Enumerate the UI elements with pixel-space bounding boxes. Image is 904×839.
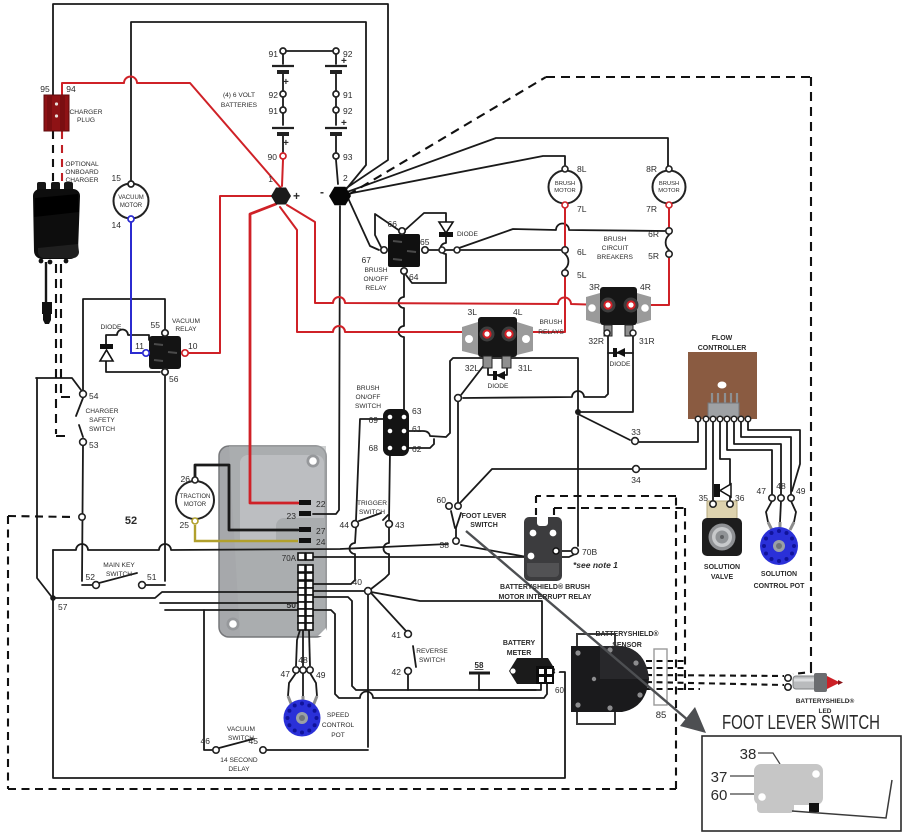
svg-text:50: 50 — [287, 600, 297, 610]
svg-text:VACUUM: VACUUM — [172, 318, 200, 325]
wire node 40 to reverse 41 — [371, 593, 406, 631]
dashed onboard charger drop right — [61, 264, 74, 397]
speed control pot — [284, 700, 321, 737]
svg-text:85: 85 — [656, 710, 667, 721]
wire yellow traction motor 25 to pin 24 — [195, 525, 298, 541]
svg-text:+: + — [283, 138, 289, 149]
diode D1 vacuum relay — [100, 344, 113, 361]
wire flow pin to pot 48 — [734, 421, 781, 494]
wire flow pin to solution valve 36 — [720, 421, 730, 500]
optional onboard charger — [33, 182, 80, 324]
svg-text:31L: 31L — [518, 363, 532, 373]
svg-text:70A: 70A — [282, 554, 297, 563]
svg-text:67: 67 — [362, 255, 372, 265]
svg-text:SWITCH: SWITCH — [355, 403, 381, 410]
svg-text:15: 15 — [112, 173, 122, 183]
dashed inner second top edge — [554, 507, 685, 509]
brush relay 3L/4L — [462, 317, 533, 368]
svg-text:33: 33 — [631, 427, 641, 437]
dashed right edge down to LED — [810, 77, 812, 666]
dashed elbow to LED — [793, 666, 811, 674]
brush motor 8L — [549, 166, 582, 208]
svg-text:BRUSH: BRUSH — [539, 319, 562, 326]
wire node 40 left into grid — [313, 590, 364, 592]
wire red node 1 to 3L rail — [280, 207, 482, 332]
controller pin 24 — [299, 538, 311, 543]
svg-text:60: 60 — [711, 787, 728, 804]
wire node 2 negative bus down to controller pin 23 — [313, 206, 340, 514]
svg-text:MOTOR: MOTOR — [120, 203, 143, 209]
controller pin grid 50 — [298, 581, 313, 630]
svg-text:92: 92 — [343, 106, 353, 116]
wire trigger switch blade — [359, 513, 388, 521]
svg-text:MOTOR: MOTOR — [554, 188, 575, 194]
svg-text:47: 47 — [757, 486, 767, 496]
wire breaker arc 6R-5R — [666, 235, 669, 250]
svg-text:BATTERYSHIELD®: BATTERYSHIELD® — [796, 697, 855, 705]
svg-text:VALVE: VALVE — [711, 574, 734, 581]
svg-text:FOOT LEVER: FOOT LEVER — [462, 513, 507, 520]
dashed sensor to LED row 3 — [646, 675, 784, 676]
svg-text:8L: 8L — [577, 164, 587, 174]
svg-text:ON/OFF: ON/OFF — [364, 276, 389, 283]
wire node 40 to battery meter box — [371, 592, 542, 666]
svg-text:47: 47 — [281, 669, 291, 679]
wire 66 to diode to 64 loop — [404, 213, 446, 283]
node 40 — [365, 588, 372, 595]
svg-text:RELAYS: RELAYS — [538, 329, 564, 336]
wire 65 node to breaker 6R — [459, 224, 665, 248]
wire red battery 90 to node 1 — [62, 77, 669, 504]
svg-text:-: - — [320, 185, 324, 199]
svg-text:METER: METER — [507, 650, 532, 657]
svg-text:56: 56 — [169, 374, 179, 384]
node under 3L — [455, 395, 462, 402]
wire battery 93 to node 2 — [336, 160, 338, 184]
wire charger safety switch blade — [76, 398, 83, 437]
svg-text:SWITCH: SWITCH — [470, 522, 498, 529]
svg-text:4L: 4L — [513, 307, 523, 317]
vacuum motor — [114, 181, 149, 222]
svg-text:MAIN KEY: MAIN KEY — [103, 562, 135, 569]
svg-text:+: + — [341, 56, 347, 67]
svg-text:36: 36 — [735, 493, 745, 503]
plus minus marks — [293, 185, 324, 203]
node 47 48 49 circles — [293, 667, 313, 673]
wire vacuum motor 15 to node 2 top run — [131, 22, 366, 193]
svg-text:49: 49 — [316, 670, 326, 680]
svg-text:26: 26 — [181, 474, 191, 484]
svg-text:MOTOR: MOTOR — [658, 188, 679, 194]
svg-text:CONTROL: CONTROL — [322, 722, 355, 729]
svg-text:BATTERYSHIELD®: BATTERYSHIELD® — [595, 630, 659, 638]
reverse switch terminals 41 42 — [405, 631, 412, 638]
svg-text:91: 91 — [269, 106, 279, 116]
svg-text:VACUUM: VACUUM — [118, 195, 144, 201]
wire red 7L to 6L — [564, 209, 566, 246]
svg-text:BRUSH: BRUSH — [555, 181, 575, 187]
svg-text:SWITCH: SWITCH — [419, 657, 445, 664]
wire grid row to 352 drop to meter — [313, 597, 541, 690]
wire vacuum relay diode top link — [106, 330, 149, 345]
wire flow pin to pot 49 — [741, 421, 791, 494]
brush relay 3R/4R — [586, 287, 651, 336]
svg-text:+: + — [293, 189, 300, 203]
svg-text:25: 25 — [180, 520, 190, 530]
junction 57 dot — [50, 595, 56, 601]
svg-text:6R: 6R — [648, 229, 659, 239]
wire red node 1 to vacuum relay 10 — [189, 196, 272, 353]
solution pot lead wires — [766, 501, 796, 522]
svg-text:51: 51 — [147, 572, 157, 582]
svg-text:66: 66 — [388, 219, 398, 229]
wire reverse switch blade — [413, 646, 416, 667]
svg-text:3L: 3L — [468, 307, 478, 317]
wire main key switch blade — [99, 573, 137, 583]
wire junction dot down to 70B — [577, 416, 579, 546]
dashed top right run — [546, 76, 811, 78]
controller module body — [219, 446, 326, 637]
svg-text:48: 48 — [298, 655, 308, 665]
svg-text:CONTROLLER: CONTROLLER — [698, 345, 747, 352]
svg-text:BRUSH: BRUSH — [356, 385, 379, 392]
dashed node 2 diagonal to top right — [348, 77, 546, 195]
component caption texts — [65, 92, 679, 773]
controller pin 70A pair — [298, 553, 313, 560]
svg-text:58: 58 — [475, 661, 484, 670]
svg-text:BATTERIES: BATTERIES — [221, 102, 258, 109]
wire vacuum relay diode bottom to 56 — [106, 361, 160, 372]
wire vacuum switch blade — [219, 739, 253, 748]
svg-text:SOLUTION: SOLUTION — [761, 571, 797, 578]
wire 56 down through bus to main key 51 — [146, 376, 165, 585]
junction dot 578 — [575, 409, 581, 415]
trigger switch terminals — [352, 521, 359, 528]
svg-text:10: 10 — [188, 341, 198, 351]
wire main bus 550 with hops to foot lever 38 — [53, 544, 448, 550]
svg-text:DIODE: DIODE — [610, 361, 631, 368]
wire node 2 to relay 67 — [348, 198, 379, 250]
svg-text:68: 68 — [369, 443, 379, 453]
svg-text:PLUG: PLUG — [77, 117, 95, 124]
svg-text:SOLUTION: SOLUTION — [704, 564, 740, 571]
dashed inner second right edge — [684, 508, 686, 690]
wire 32R down and left to node under 3L — [463, 336, 608, 398]
wire brush switch 68 to trigger 43 — [389, 451, 390, 520]
svg-text:FOOT LEVER SWITCH: FOOT LEVER SWITCH — [722, 712, 880, 734]
wire flow pin to solution valve 35 — [712, 421, 714, 500]
wire grid left entries — [53, 592, 313, 610]
svg-text:1: 1 — [268, 174, 273, 184]
wire blue vacuum motor 14 to relay 11 — [131, 222, 142, 353]
wire flow pin to pot 47 — [727, 421, 772, 494]
svg-text:TRACTION: TRACTION — [180, 494, 211, 500]
node 34 — [633, 466, 640, 473]
batteryshield relay — [524, 517, 562, 581]
dashed outer box left edge — [7, 516, 9, 789]
charger safety terminals 54 53 — [80, 391, 87, 398]
svg-text:95: 95 — [40, 84, 50, 94]
svg-text:ONBOARD: ONBOARD — [65, 169, 99, 176]
svg-text:38: 38 — [740, 746, 757, 763]
svg-text:MOTOR INTERRUPT RELAY: MOTOR INTERRUPT RELAY — [499, 594, 592, 601]
wire 8R top feed — [667, 165, 669, 169]
wire junction 578 dot to node 33 — [578, 414, 630, 440]
controller pin block upper — [298, 565, 313, 580]
wire red charger plug 94 run to node 1 — [62, 77, 281, 189]
wires grid to pot 47 48 49 — [296, 630, 310, 666]
svg-text:92: 92 — [269, 90, 279, 100]
svg-text:70B: 70B — [582, 547, 597, 557]
wire batteryshield relay to 70B — [560, 550, 571, 552]
wire vacuum relay enclosure 54 to 55 — [83, 299, 165, 390]
wire switch pin 62 stub — [407, 439, 434, 448]
dashed onboard charger drop left — [56, 264, 68, 436]
svg-text:91: 91 — [343, 90, 353, 100]
foot lever switch inset box — [702, 736, 901, 831]
svg-text:RELAY: RELAY — [175, 326, 197, 333]
svg-text:VACUUM: VACUUM — [227, 726, 255, 733]
wire flow pin 8 step — [748, 421, 800, 491]
svg-text:8R: 8R — [646, 164, 657, 174]
charger plug — [44, 95, 69, 131]
svg-text:52: 52 — [86, 572, 96, 582]
svg-text:63: 63 — [412, 406, 422, 416]
wire red 5L to 4L — [516, 277, 565, 332]
svg-text:SAFETY: SAFETY — [89, 417, 115, 424]
svg-text:22: 22 — [316, 499, 326, 509]
dashed sensor to LED row 1 — [646, 660, 688, 662]
svg-text:DIODE: DIODE — [457, 231, 478, 238]
wire 66 to 67 link — [375, 214, 400, 247]
wire 53 down through bus to main key 52 — [82, 446, 92, 585]
wire vacuum switch 45 feed — [267, 749, 368, 751]
wire 65 node to breaker 6L — [429, 249, 561, 251]
solution valve body — [702, 501, 742, 556]
svg-text:94: 94 — [66, 84, 76, 94]
brush on/off relay 67 body — [381, 228, 460, 274]
svg-text:DIODE: DIODE — [488, 383, 509, 390]
dashed sensor row 5 — [646, 688, 700, 690]
node 1 hexagon — [271, 188, 291, 205]
svg-text:DIODE: DIODE — [101, 324, 122, 331]
diode D5 above solution valve — [714, 484, 731, 497]
dashed inner box top edge — [536, 495, 676, 497]
diode D2 at relay 67 — [439, 222, 453, 237]
wire 3L diode bracket — [488, 368, 507, 375]
svg-text:MOTOR: MOTOR — [184, 502, 207, 508]
svg-text:3R: 3R — [589, 282, 600, 292]
svg-text:57: 57 — [58, 602, 68, 612]
svg-text:64: 64 — [409, 272, 419, 282]
svg-text:REVERSE: REVERSE — [416, 648, 448, 655]
svg-text:69: 69 — [369, 415, 379, 425]
svg-text:32R: 32R — [588, 336, 604, 346]
svg-text:91: 91 — [269, 49, 279, 59]
svg-text:48: 48 — [776, 481, 786, 491]
wire left drop to junction 57 — [37, 378, 51, 596]
ground 58 symbol — [469, 672, 490, 675]
wire foot lever switch V blade — [451, 511, 461, 537]
wire 38 diagonal to batteryshield relay — [461, 545, 527, 557]
svg-text:65: 65 — [420, 237, 430, 247]
diode D4 under 3R — [613, 348, 625, 357]
battery symbols left column — [272, 66, 294, 134]
flow controller — [688, 352, 757, 422]
svg-text:44: 44 — [340, 520, 350, 530]
wire node 2 to brush motor 8R — [347, 138, 668, 192]
svg-text:23: 23 — [287, 511, 297, 521]
svg-text:37: 37 — [711, 769, 728, 786]
svg-text:5R: 5R — [648, 251, 659, 261]
battery node circles — [280, 48, 339, 159]
wire bus corner down to 57 — [52, 550, 54, 596]
svg-text:ON/OFF: ON/OFF — [356, 394, 381, 401]
svg-text:SWITCH: SWITCH — [89, 426, 115, 433]
wire red node 1 down to controller pin 22 — [250, 204, 298, 503]
wire 64 down to switch pin 63 with hops over red lines — [399, 275, 405, 410]
wire red 5R to 4R — [636, 258, 669, 305]
svg-text:+: + — [341, 118, 347, 129]
wire charger plug 95 to node 2 top run — [53, 4, 388, 191]
main key switch terminals — [93, 582, 100, 589]
wire traction motor 26 to pin 27 — [195, 465, 298, 530]
dashed outer box bottom edge — [8, 788, 676, 790]
svg-text:SENSOR: SENSOR — [612, 642, 642, 649]
vacuum switch terminals 46 45 — [213, 747, 219, 753]
controller pin 23 — [299, 511, 311, 516]
arrow to inset — [466, 531, 706, 733]
svg-text:41: 41 — [392, 630, 402, 640]
svg-text:RELAY: RELAY — [365, 285, 387, 292]
node 90 red terminal — [280, 153, 286, 159]
svg-text:BRUSH: BRUSH — [659, 181, 679, 187]
svg-text:35: 35 — [699, 493, 709, 503]
svg-text:14: 14 — [112, 220, 122, 230]
svg-text:14 SECOND: 14 SECOND — [220, 757, 258, 764]
svg-text:BREAKERS: BREAKERS — [597, 254, 634, 261]
svg-text:CIRCUIT: CIRCUIT — [602, 245, 629, 252]
svg-text:61: 61 — [412, 424, 422, 434]
node 2 hexagon — [329, 187, 351, 206]
wire grid row to 335 drop to meter lower — [313, 610, 547, 698]
solution control pot — [760, 527, 798, 565]
svg-text:27: 27 — [316, 526, 326, 536]
wire elbow to charger safety 54 — [36, 378, 81, 390]
wire 57 down to bottom bus and to battery meter out — [53, 600, 565, 778]
dashed sensor to LED row 4 — [646, 682, 784, 685]
brush motor 8R — [653, 166, 686, 208]
wire trigger 43 drop with hops to node 40 — [371, 527, 389, 589]
svg-text:CHARGER: CHARGER — [66, 177, 99, 184]
svg-text:SWITCH: SWITCH — [359, 509, 385, 516]
node 70B — [572, 548, 579, 555]
svg-text:SPEED: SPEED — [327, 712, 350, 719]
batteryshield LED body — [793, 673, 843, 692]
dashed relay stub inner — [553, 508, 555, 520]
svg-text:42: 42 — [392, 667, 402, 677]
wire trigger 44 drop with hops into grid row — [313, 527, 356, 584]
svg-text:FLOW: FLOW — [712, 335, 733, 342]
batteryshield LED terminals — [785, 675, 791, 681]
svg-text:31R: 31R — [639, 336, 655, 346]
wire node 2 to brush motor 8L — [347, 156, 565, 194]
svg-text:4R: 4R — [640, 282, 651, 292]
svg-text:60: 60 — [437, 495, 447, 505]
svg-text:2: 2 — [343, 173, 348, 183]
wire red 7R to 6R — [668, 209, 670, 227]
wire node 40 down to vacuum switch 45 line — [367, 595, 369, 747]
svg-text:32L: 32L — [465, 363, 479, 373]
svg-text:40: 40 — [353, 577, 363, 587]
wire 31R to junction dot — [581, 336, 633, 412]
diode D3 under 3L — [493, 371, 505, 380]
svg-text:7L: 7L — [577, 204, 587, 214]
inset labels — [711, 746, 757, 804]
wire breaker arc 6L-5L — [565, 254, 568, 269]
dashed relay stub left — [535, 496, 537, 520]
dashed right column — [675, 496, 677, 789]
dashed outer box top-left stub — [8, 516, 72, 517]
dashed sensor to LED row 2 — [646, 667, 688, 669]
controller pin 27 — [299, 527, 311, 532]
svg-text:DELAY: DELAY — [228, 766, 250, 773]
svg-text:SWITCH: SWITCH — [228, 735, 254, 742]
wire 58 ground to battery meter — [479, 675, 536, 690]
wire 70A to 70B — [313, 554, 575, 557]
battery meter — [509, 658, 559, 684]
controller pin 22 — [299, 500, 311, 505]
svg-text:CHARGER: CHARGER — [86, 408, 119, 415]
svg-text:CONTROL POT: CONTROL POT — [754, 583, 806, 590]
svg-text:62: 62 — [412, 444, 422, 454]
svg-text:OPTIONAL: OPTIONAL — [65, 161, 99, 168]
svg-text:46: 46 — [201, 736, 211, 746]
svg-text:SWITCH: SWITCH — [106, 571, 132, 578]
brush on/off switch body — [383, 409, 409, 456]
svg-text:24: 24 — [316, 537, 326, 547]
svg-text:5L: 5L — [577, 270, 587, 280]
wire node down to foot lever 60 — [457, 402, 459, 502]
svg-text:BATTERYSHIELD® BRUSH: BATTERYSHIELD® BRUSH — [500, 583, 590, 591]
svg-text:43: 43 — [395, 520, 405, 530]
svg-text:TRIGGER: TRIGGER — [357, 500, 387, 507]
traction motor — [176, 477, 214, 524]
svg-text:(4) 6 VOLT: (4) 6 VOLT — [223, 92, 255, 99]
solution pot terminals 47 48 49 — [769, 495, 794, 501]
svg-text:90: 90 — [268, 152, 278, 162]
svg-text:CHARGER: CHARGER — [70, 109, 103, 116]
wire 3R diode bridge — [608, 352, 633, 354]
wire brush switch 69 to trigger 44 — [356, 419, 388, 520]
wire vacuum switch 46 feed — [204, 610, 212, 750]
svg-text:53: 53 — [89, 440, 99, 450]
svg-text:34: 34 — [631, 475, 641, 485]
battery symbols right column — [325, 66, 347, 134]
svg-text:52: 52 — [125, 515, 137, 527]
wire foot lever to node 34 and flow controller — [460, 421, 706, 503]
dashed charger plug to onboard charger black — [52, 131, 54, 186]
connector 85 — [654, 649, 667, 705]
svg-text:38: 38 — [440, 540, 450, 550]
svg-text:7R: 7R — [646, 204, 657, 214]
wire battery columns — [283, 51, 336, 152]
foot lever terminals 60 38 — [446, 503, 452, 509]
wire 32L post diagonal to node — [461, 360, 488, 395]
wire node 33 to flow controller — [639, 421, 698, 442]
wire reverse 42 drop — [407, 675, 409, 690]
svg-text:BRUSH: BRUSH — [603, 236, 626, 243]
